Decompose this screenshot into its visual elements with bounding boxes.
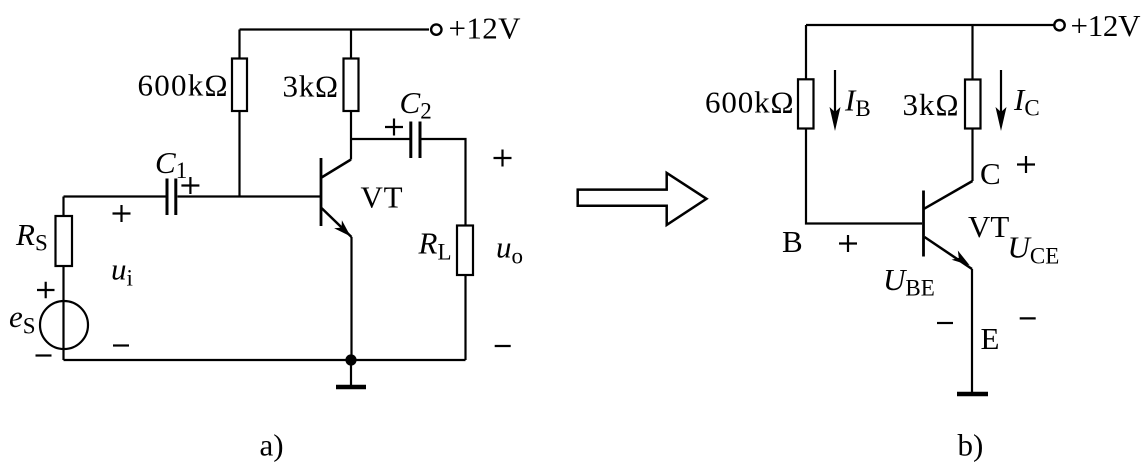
svg-text:3kΩ: 3kΩ	[903, 87, 959, 122]
transistor VT base bar (a)	[320, 158, 323, 226]
current arrow IB	[830, 70, 841, 131]
label C2	[400, 85, 432, 124]
svg-text:VT: VT	[361, 180, 403, 215]
svg-text:C: C	[980, 156, 1001, 191]
resistor 3k ohm body (b)	[965, 80, 981, 129]
wire: RL bottom to rail (a)	[464, 275, 466, 360]
value label 3kohm (a)	[283, 69, 339, 104]
value label 600kohm (b)	[705, 85, 794, 120]
label RS	[15, 217, 48, 255]
svg-text:600kΩ: 600kΩ	[705, 85, 794, 120]
wire: source branch top (a)	[62, 197, 64, 217]
capacitor C1 plates	[167, 179, 176, 216]
terminal: circuit b +12V open circle	[1054, 20, 1064, 30]
wire: 3k branch top (b)	[971, 25, 973, 80]
wire: 600k branch top (b)	[805, 25, 807, 79]
wire: C2 branch horizontal left (a)	[351, 138, 410, 140]
svg-text:600kΩ: 600kΩ	[138, 68, 228, 103]
resistor RS body	[56, 216, 73, 266]
svg-text:VT: VT	[968, 209, 1009, 244]
resistor 600k ohm body (b)	[798, 79, 814, 128]
label UBE	[883, 262, 935, 301]
polarity + right of C1	[181, 177, 199, 194]
wire: base wire left segment with source branch (a)	[64, 195, 167, 197]
big arrow between circuits	[578, 173, 707, 225]
value label 3kohm (b)	[903, 87, 959, 122]
wire: emitter vertical to ground (b)	[971, 269, 973, 392]
transistor VT collector diagonal (a)	[322, 160, 352, 178]
value label +12V (circuit a)	[449, 10, 522, 45]
polarity - below eS	[36, 354, 52, 356]
transistor VT collector diagonal (b)	[924, 181, 973, 209]
wire: circuit b top +12V rail	[806, 24, 1054, 26]
label VT (b)	[968, 209, 1009, 244]
wire: 600k branch bottom to base node (a)	[238, 111, 240, 197]
polarity - of uo	[495, 345, 511, 347]
transistor VT emitter diagonal with arrow (a)	[322, 208, 355, 240]
polarity + of ui (a)	[113, 205, 131, 222]
label IC	[1013, 82, 1040, 121]
source eS circle	[40, 301, 88, 349]
resistor R 600k ohm body (a)	[232, 59, 247, 112]
current arrow IC	[996, 70, 1007, 131]
wire: 600k branch bottom to base (b)	[806, 129, 922, 224]
capacitor C2 plates	[411, 122, 420, 159]
label VT (a)	[361, 180, 403, 215]
wire: bottom ground rail (a)	[64, 359, 466, 361]
polarity - of UBE	[937, 322, 953, 324]
svg-text:+12V: +12V	[1071, 8, 1142, 43]
polarity - of ui (a)	[113, 344, 129, 346]
polarity + left of C2	[385, 119, 403, 136]
polarity + above eS	[37, 282, 55, 298]
label uo output voltage	[496, 230, 523, 269]
wire: 600k branch top (a)	[238, 30, 240, 59]
wire: C2 to output node (a)	[422, 139, 466, 226]
resistor 3k ohm body (a)	[344, 59, 359, 112]
junction dot emitter/ground rail (a)	[345, 354, 356, 365]
svg-text:b): b)	[958, 428, 984, 463]
wire: collector vertical (b)	[971, 129, 973, 182]
svg-text:a): a)	[260, 428, 284, 463]
caption b)	[958, 428, 984, 463]
label IB	[844, 83, 871, 122]
transistor VT base bar (b)	[922, 191, 925, 257]
polarity + of uo	[494, 150, 512, 167]
svg-text:3kΩ: 3kΩ	[283, 69, 339, 104]
label eS	[9, 299, 36, 339]
ground symbol bar (a)	[336, 385, 366, 390]
wire: RS to source circle (a)	[62, 266, 64, 301]
ground symbol stub (a)	[350, 360, 352, 385]
label node E	[981, 321, 1000, 356]
caption a)	[260, 428, 284, 463]
label RL	[418, 226, 452, 265]
svg-text:+12V: +12V	[449, 10, 522, 45]
label C1	[155, 145, 187, 183]
wire: through source circle (a)	[62, 301, 64, 360]
polarity - of UCE	[1020, 317, 1036, 319]
label UCE	[1008, 230, 1060, 269]
svg-text:B: B	[782, 224, 803, 259]
ground symbol bar (b)	[957, 392, 988, 397]
wire: 3k branch top (a)	[350, 30, 352, 59]
wire: circuit a top +12V rail	[240, 28, 430, 30]
svg-text:E: E	[981, 321, 1000, 356]
wire: collector branch vertical (a)	[350, 111, 352, 160]
polarity + of UCE	[1017, 156, 1035, 173]
wire: emitter vertical to ground rail (a)	[350, 237, 352, 360]
label node C	[980, 156, 1001, 191]
wire: base wire right segment to transistor (a)	[178, 195, 322, 197]
label ui input voltage	[111, 251, 133, 290]
transistor VT emitter diagonal with arrow (b)	[925, 237, 973, 270]
label node B	[782, 224, 803, 259]
resistor RL body	[457, 226, 473, 276]
value label +12V (circuit b)	[1071, 8, 1142, 43]
terminal: circuit a +12V open circle	[431, 24, 441, 34]
polarity + of UBE	[839, 235, 857, 252]
value label 600kohm (a)	[138, 68, 228, 103]
